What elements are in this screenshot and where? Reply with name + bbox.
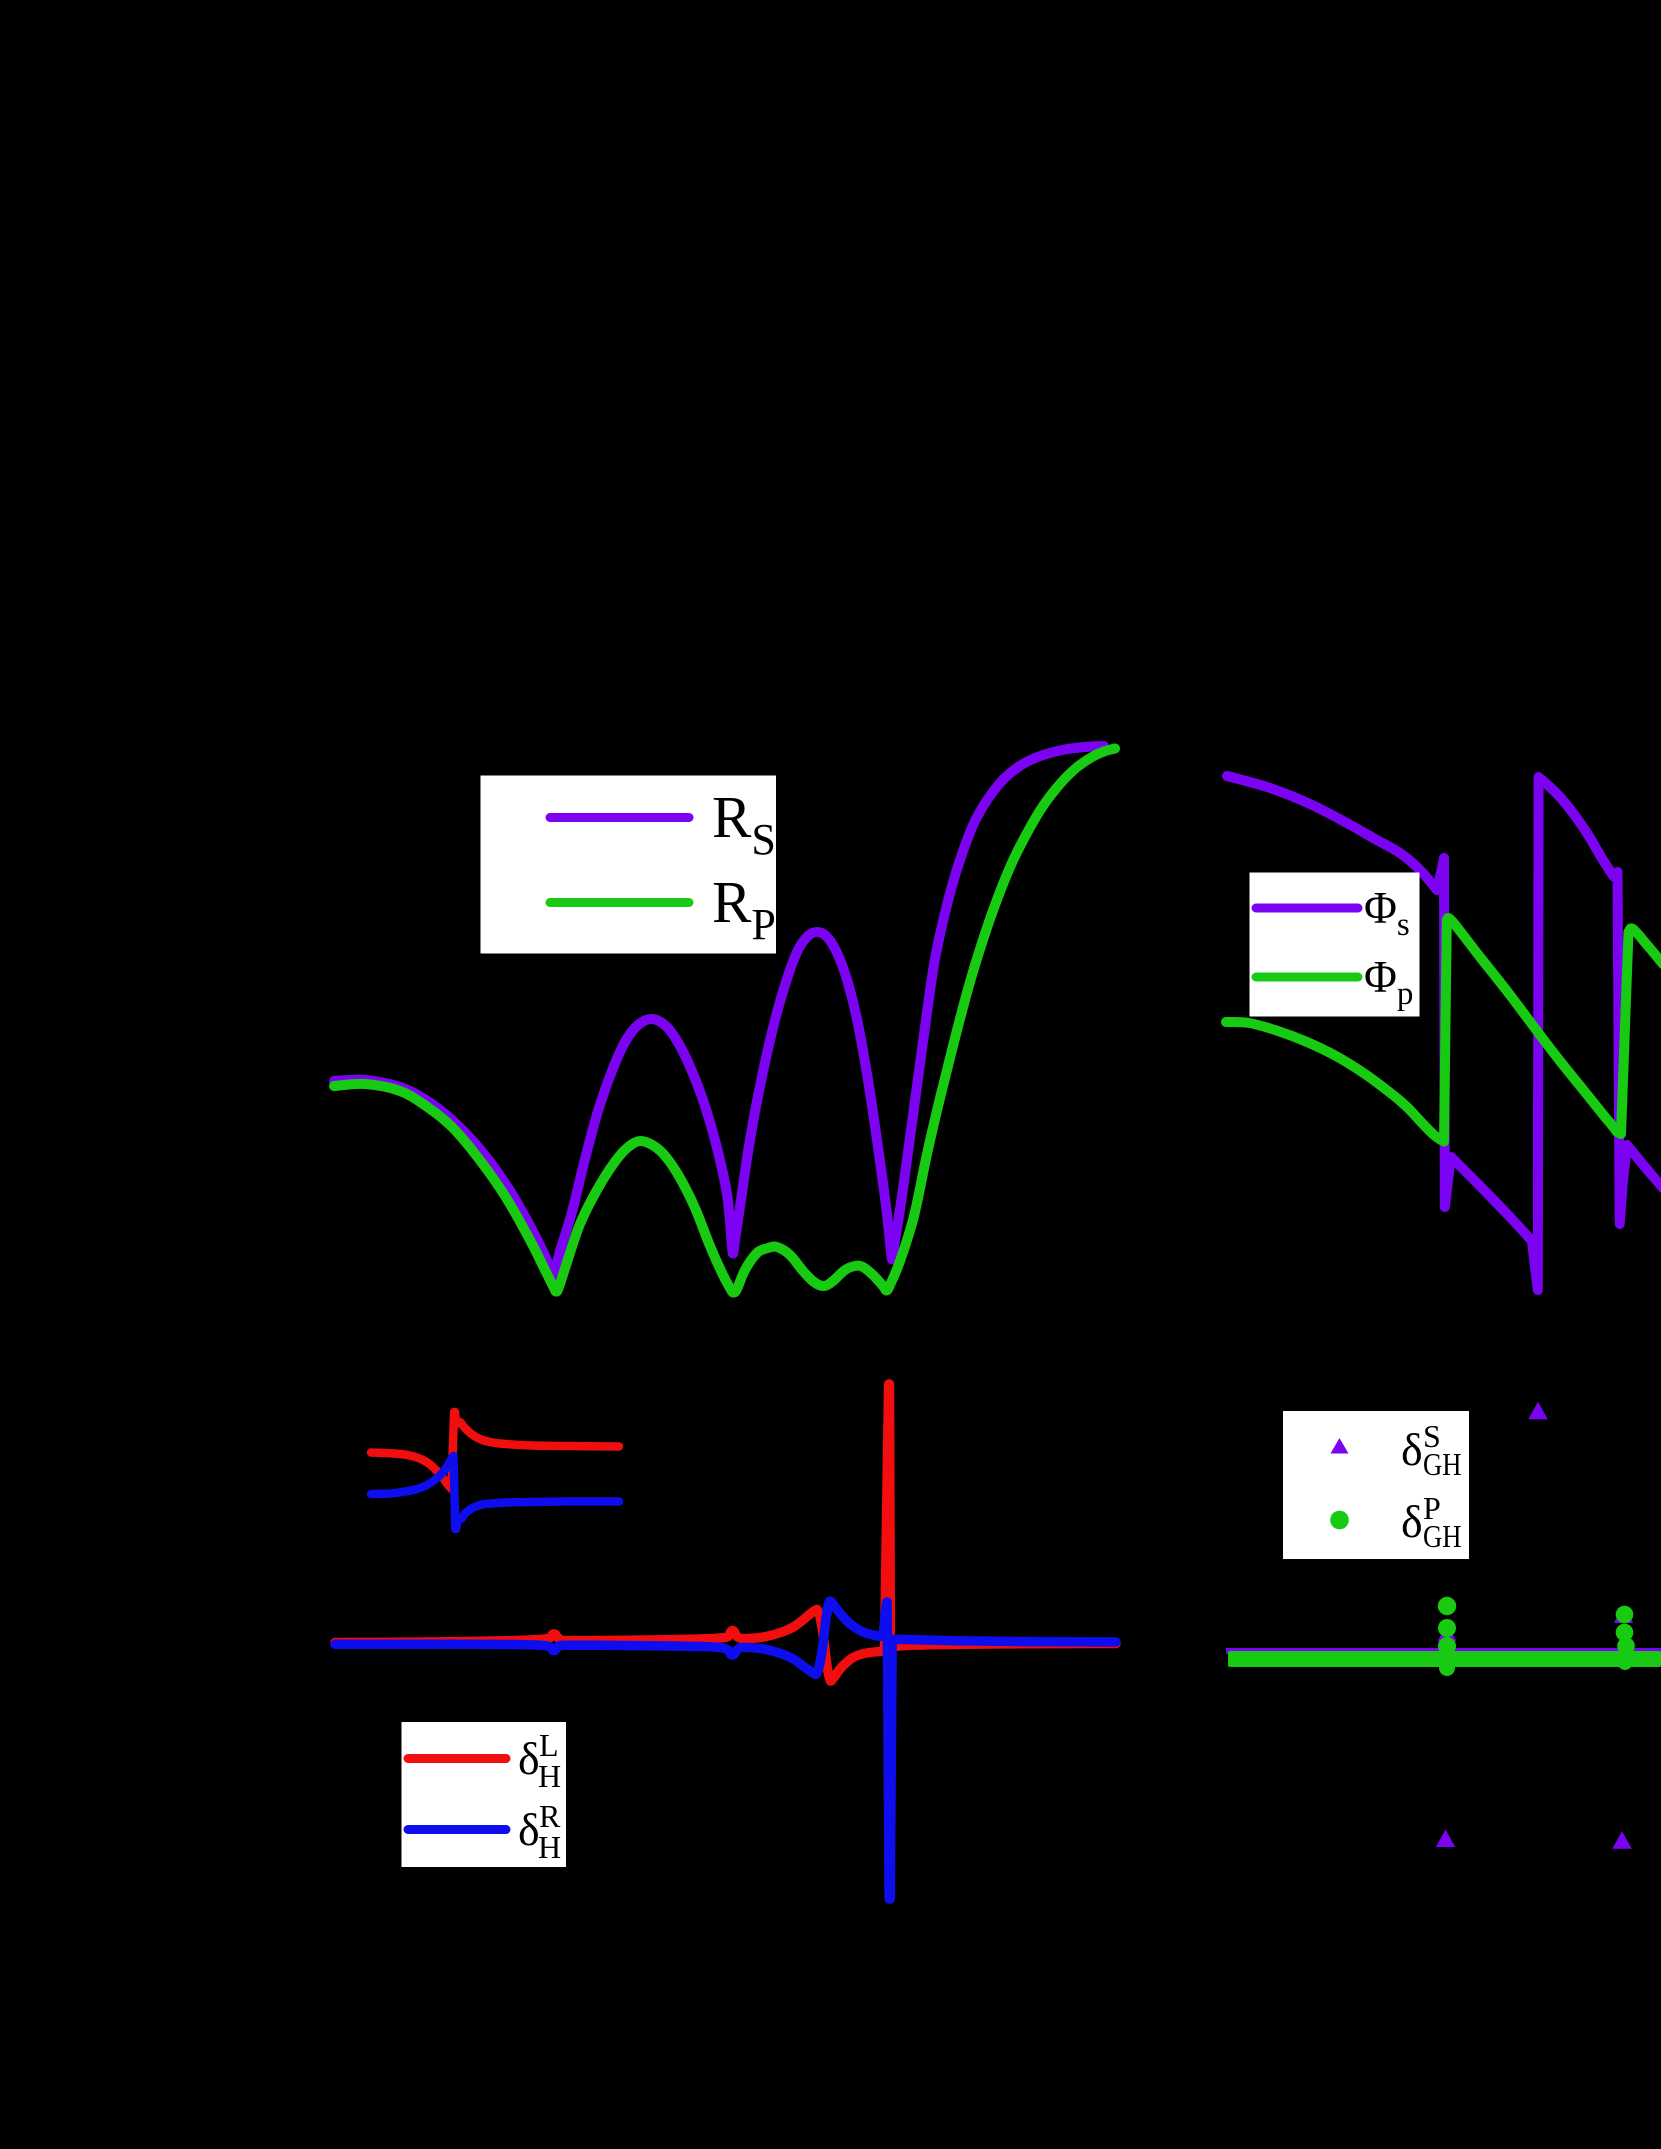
svg-text:H: H: [538, 1758, 561, 1794]
svg-text:δ: δ: [1401, 1424, 1423, 1475]
svg-text:δ: δ: [1401, 1496, 1423, 1547]
svg-text:δ: δ: [518, 1804, 540, 1855]
svg-text:GH: GH: [1423, 1446, 1462, 1482]
svg-text:δ: δ: [518, 1733, 540, 1784]
svg-text:GH: GH: [1423, 1518, 1462, 1554]
svg-text:H: H: [538, 1829, 561, 1865]
